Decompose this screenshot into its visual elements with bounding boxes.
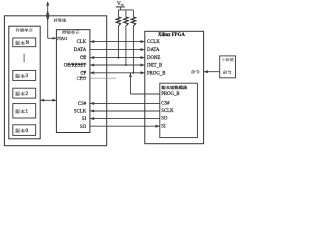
control unit box [56, 30, 90, 133]
arrow command into FPGA [204, 70, 208, 73]
pin CLK [77, 40, 87, 45]
svg-text:INIT_B: INIT_B [147, 64, 162, 69]
arrow PROG_B into FPGA [141, 71, 145, 74]
wire CE-DONE [90, 57, 145, 59]
wire CF-PROG_B [90, 72, 145, 74]
power Vcc [116, 1, 125, 7]
pin SO (module) [161, 117, 168, 122]
wire CEO stub [90, 77, 116, 79]
pin PROG_B (FPGA) [147, 71, 165, 76]
pin DATA (FPGA) [147, 48, 160, 53]
pin CCLK (FPGA) [147, 40, 160, 45]
svg-text:SCLK: SCLK [74, 110, 87, 115]
junction dot R1 [117, 57, 119, 59]
svg-text:CS#: CS# [78, 102, 87, 107]
storage unit box [9, 26, 40, 139]
pin DATA [74, 48, 87, 53]
svg-text:PROG_B: PROG_B [147, 71, 165, 76]
version box 版本2 [13, 88, 36, 98]
arrow CE into control unit [90, 56, 94, 59]
wire JTAG vertical [47, 2, 49, 38]
label 存储单元 [16, 28, 33, 32]
svg-text:CS#: CS# [161, 102, 170, 107]
wire CLK-CCLK [90, 41, 145, 43]
label 版本切换模块 [162, 85, 188, 89]
arrow CF into control unit [90, 71, 94, 74]
label 命令 (FPGA) [191, 70, 199, 74]
svg-text:CLK: CLK [77, 40, 87, 45]
arrow into control [52, 99, 56, 102]
version box 版本3 [13, 70, 36, 80]
wire SCLK [90, 109, 160, 112]
junction dot R2 [125, 64, 127, 66]
pin PROG_B (module) [161, 92, 179, 97]
arrow CCLK into FPGA [141, 40, 145, 43]
svg-text:DATA: DATA [147, 48, 160, 53]
ellipsis between versions [23, 54, 25, 63]
arrow DATA into FPGA [141, 48, 145, 51]
svg-text:JTAG: JTAG [57, 36, 68, 41]
arrow into storage [40, 99, 44, 102]
label JTAG [57, 36, 68, 41]
label 版本N [15, 41, 29, 46]
version box 版本N [13, 38, 36, 47]
host computer box [220, 56, 236, 78]
pin CEO [77, 77, 87, 82]
pin CS# [78, 102, 87, 107]
pin SCLK [74, 110, 87, 115]
pin CF [80, 71, 86, 76]
junction dot R3 [132, 72, 134, 74]
pin CS# (module) [161, 102, 170, 107]
arrow into control unit (JTAG) [53, 37, 57, 40]
svg-text:SO: SO [161, 117, 168, 122]
resistor R2 [124, 10, 128, 65]
wire JTAG horizontal [48, 37, 57, 39]
wire module PROG_B [130, 73, 159, 94]
svg-text:SCLK: SCLK [161, 109, 174, 114]
wire Vcc rail [118, 9, 133, 11]
svg-text:Xilinx FPGA: Xilinx FPGA [158, 33, 185, 38]
svg-text:SI: SI [82, 117, 87, 122]
FPGA box [145, 31, 204, 143]
label 控制单元 [62, 30, 80, 34]
arrow CLK into control unit [90, 40, 94, 43]
pin SCLK (module) [161, 109, 174, 114]
arrow OE/RESET into control unit [90, 63, 94, 66]
label Xilinx FPGA [158, 33, 185, 38]
label 版本3 [15, 74, 28, 79]
pin SI (module) [161, 124, 166, 129]
arrow PROG_B drive (up) [129, 73, 132, 77]
arrow JTAG boundary (bidir) [46, 10, 49, 21]
wire OE/RESET-INIT_B [90, 64, 145, 66]
arrow JTAG top (up) [46, 1, 49, 5]
svg-text:CCLK: CCLK [147, 40, 160, 45]
pin INIT_B (FPGA) [147, 64, 162, 69]
wire DATA-DATA [90, 49, 145, 51]
wire SO-SI [90, 125, 160, 128]
resistor R1 [116, 10, 120, 58]
arrow DONE into FPGA [141, 56, 145, 59]
version switch module box [160, 83, 198, 137]
label 版本0 [15, 129, 28, 134]
svg-text:N: N [26, 41, 30, 46]
arrow INIT_B into FPGA [141, 63, 145, 66]
label 版本1 [15, 109, 28, 114]
wire command [204, 71, 220, 73]
wire CS# [90, 102, 160, 105]
svg-text:DONE: DONE [147, 56, 160, 61]
pin SI [82, 117, 87, 122]
label 版本2 [15, 92, 28, 97]
label 上位机 [223, 58, 234, 62]
svg-text:SO: SO [80, 125, 87, 130]
version box 版本1 [13, 104, 36, 118]
svg-text:PROG_B: PROG_B [161, 92, 179, 97]
svg-text:DATA: DATA [74, 48, 87, 53]
svg-text:Vcc: Vcc [117, 1, 124, 7]
pin DONE (FPGA) [147, 56, 160, 61]
wire Vcc stub [119, 7, 121, 10]
label 封装体 [54, 18, 67, 22]
svg-text:SI: SI [161, 124, 166, 129]
wire storage-control [40, 99, 56, 101]
label 命令 (host) [223, 70, 231, 74]
resistor R3 [131, 10, 135, 73]
package body box [4, 16, 106, 146]
pin CE [80, 56, 86, 61]
pin SO [80, 125, 87, 130]
version box 版本0 [13, 125, 36, 136]
wire SI-SO [90, 117, 160, 120]
pin OE/RESET [64, 64, 86, 69]
